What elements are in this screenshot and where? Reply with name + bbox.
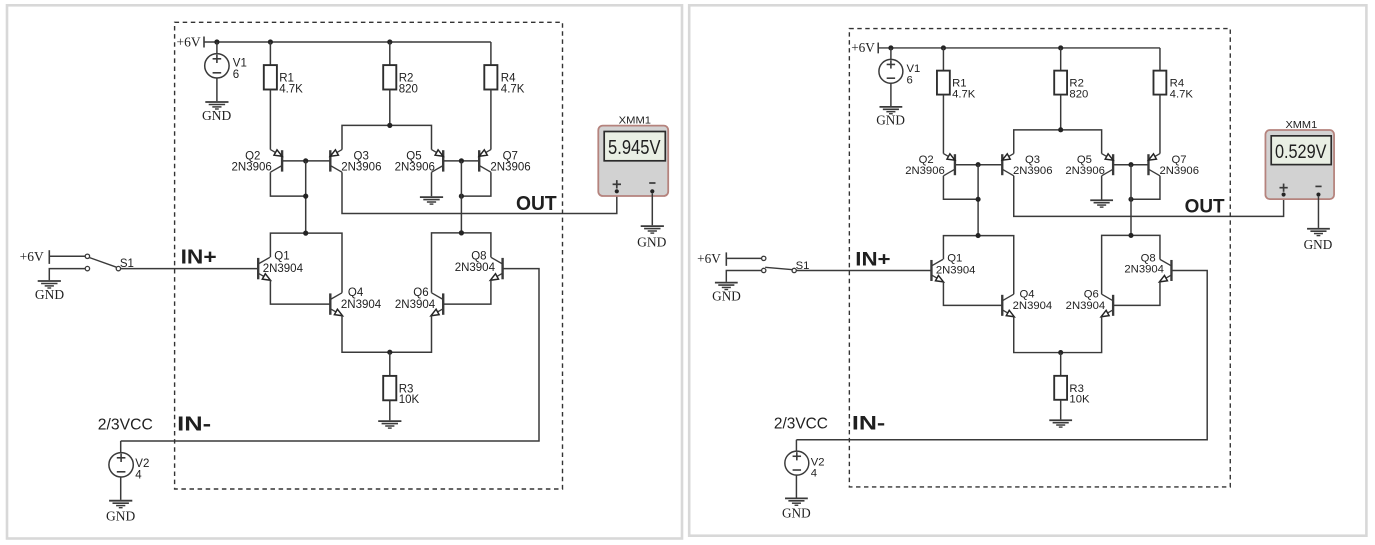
node +6V at switch (697, 251, 726, 266)
label Q5 2N3906 (1065, 154, 1105, 177)
node junction R1/rail (268, 39, 273, 44)
wire R1 to Q2 emitter (942, 95, 944, 154)
svg-text:GND: GND (202, 108, 231, 123)
label Q7 2N3906 (490, 150, 530, 173)
node IN- label (177, 414, 211, 436)
wire Q8 base to IN- (796, 270, 1207, 439)
node junction Q2 collector (303, 194, 308, 199)
label Q2 2N3906 (905, 154, 945, 177)
wire R2 bottom (1060, 95, 1062, 130)
svg-text:2N3906: 2N3906 (395, 162, 435, 174)
svg-text:V2: V2 (135, 458, 149, 470)
svg-text:2N3904: 2N3904 (395, 299, 436, 311)
wire +6V to switch contact (726, 257, 761, 259)
multimeter plus terminal (613, 180, 621, 193)
wire Q5 base to Q7 base (1113, 164, 1148, 166)
wire V1 bottom (890, 83, 892, 106)
label Q6 2N3904 (1066, 289, 1106, 313)
svg-text:Q1: Q1 (274, 251, 289, 263)
svg-text:4.7K: 4.7K (952, 88, 976, 100)
resistor R3 (383, 376, 396, 400)
label V2 value (811, 456, 825, 479)
wire top +6V rail (204, 41, 491, 43)
right schematic (697, 29, 1334, 521)
svg-text:6: 6 (233, 69, 239, 81)
label Q4 2N3904 (1013, 289, 1053, 313)
transistor Q2 (943, 154, 954, 176)
wire R2 top (389, 42, 391, 65)
resistor R1 (264, 65, 277, 89)
label Q8 2N3904 (1124, 253, 1164, 276)
label S1 (120, 258, 134, 270)
resistor R1 (937, 71, 950, 95)
svg-text:2N3906: 2N3906 (490, 162, 530, 174)
right panel frame (689, 5, 1366, 535)
svg-text:GND: GND (35, 287, 64, 302)
node junction Q7 collector (1128, 197, 1133, 202)
transistor Q6 (1101, 294, 1113, 316)
wire Q5 collector to ground (431, 172, 433, 196)
node IN+ label (181, 247, 217, 269)
svg-text:Q5: Q5 (406, 150, 421, 162)
transistor Q8 (490, 257, 502, 280)
svg-text:4.7K: 4.7K (1170, 88, 1194, 100)
transistor Q4 (330, 293, 342, 316)
label V2 value (135, 458, 149, 482)
svg-text:V1: V1 (233, 58, 247, 70)
label R1 4.7K (952, 78, 976, 101)
node junction R2/emitters (1058, 127, 1063, 132)
svg-text:Q3: Q3 (354, 150, 369, 162)
svg-text:2N3904: 2N3904 (1066, 300, 1106, 312)
label Q3 2N3906 (341, 150, 381, 173)
svg-text:IN-: IN- (177, 414, 211, 436)
label 2/3VCC (774, 416, 828, 433)
wire R3 bottom (389, 400, 391, 420)
wire +6V to switch contact (49, 255, 85, 257)
svg-text:4: 4 (135, 470, 142, 482)
resistor R3 (1054, 376, 1067, 400)
wire GND to switch contact (726, 270, 761, 281)
label Q2 2N3906 (232, 150, 272, 173)
multimeter XMM1 body (1265, 130, 1334, 199)
ground GND under V1 (876, 107, 905, 128)
svg-text:2/3VCC: 2/3VCC (98, 417, 153, 434)
svg-text:820: 820 (399, 83, 418, 95)
wire R3 bottom (1060, 400, 1062, 420)
wire Q7 collector (1131, 176, 1160, 199)
source V2 (109, 453, 133, 477)
node junction right rail (1128, 233, 1133, 238)
svg-text:2N3906: 2N3906 (1159, 165, 1199, 177)
wire Q8 emitter to Q6 base (443, 280, 491, 304)
label R2 820 (1069, 78, 1088, 101)
multimeter minus terminal (1315, 186, 1321, 196)
label Q6 2N3904 (395, 287, 436, 311)
wire Q7 collector (461, 172, 491, 196)
wire Q3/Q5 emitters to R2 (342, 125, 432, 149)
svg-text:S1: S1 (120, 258, 134, 270)
node IN- label (852, 413, 885, 435)
wire Q3 collector to OUT (1014, 176, 1284, 217)
node OUT label (1185, 196, 1225, 218)
transistor Q5 (1102, 154, 1113, 176)
transistor Q2 (270, 150, 282, 173)
label R3 10K (399, 383, 420, 406)
svg-text:2N3906: 2N3906 (232, 162, 272, 174)
svg-text:820: 820 (1069, 88, 1088, 100)
label XMM1 (619, 115, 651, 127)
svg-text:2N3904: 2N3904 (936, 265, 976, 277)
wire V1 bottom (216, 78, 218, 101)
source V1 (205, 54, 229, 78)
wire IN- to V2 (795, 440, 797, 452)
svg-text:2/3VCC: 2/3VCC (774, 416, 828, 433)
wire V1 top (216, 42, 218, 54)
wire mid-right vertical (1130, 165, 1132, 236)
svg-text:OUT: OUT (516, 193, 557, 215)
multimeter display 0.529V (1271, 136, 1331, 165)
svg-text:Q6: Q6 (413, 287, 428, 299)
wire Q1 emitter to Q4 base (943, 282, 1002, 306)
source V1 (879, 59, 903, 83)
label R2 820 (399, 73, 418, 96)
resistor R2 (383, 65, 396, 89)
wire R1 to Q2 emitter (269, 90, 271, 150)
wire Q2 collector (943, 176, 978, 199)
ground at switch (35, 281, 64, 302)
node junction tail (387, 350, 392, 355)
label Q4 2N3904 (341, 287, 382, 311)
multimeter XMM1 body (598, 126, 668, 196)
svg-text:S1: S1 (796, 260, 810, 272)
left schematic (20, 22, 669, 523)
wire R2 top (1060, 48, 1062, 71)
switch S1 (762, 256, 797, 272)
node junction base right (1128, 162, 1133, 167)
transistor Q1 (258, 257, 270, 280)
wire R1 top (269, 42, 271, 65)
svg-text:5.945V: 5.945V (608, 137, 661, 159)
svg-text:4: 4 (811, 468, 817, 480)
ground under Q5 (420, 197, 443, 204)
node junction R1/rail (941, 45, 946, 50)
source V2 (785, 451, 809, 475)
node junction V1/rail (214, 39, 219, 44)
node junction right rail (459, 230, 464, 235)
wire Q2 collector (270, 172, 305, 196)
node junction R2/emitters (387, 123, 392, 128)
wire Q6/Q8 collector rail (1102, 235, 1160, 294)
transistor Q7 (1148, 154, 1159, 176)
resistor R2 (1054, 71, 1067, 95)
svg-text:GND: GND (782, 506, 811, 521)
wire R4 to Q7 emitter (490, 90, 492, 150)
label Q1 2N3904 (936, 253, 976, 277)
node junction left rail (303, 231, 308, 236)
svg-text:IN+: IN+ (855, 249, 890, 271)
wire top +6V rail (878, 47, 1160, 49)
svg-text:IN+: IN+ (181, 247, 217, 269)
svg-text:GND: GND (106, 508, 135, 523)
ground at switch (712, 283, 741, 304)
resistor R4 (484, 65, 497, 89)
transistor Q5 (432, 150, 444, 173)
node OUT label (516, 193, 557, 215)
svg-text:Q7: Q7 (503, 150, 518, 162)
multimeter minus terminal (649, 183, 655, 193)
node +6V (top rail label) (851, 40, 878, 55)
resistor R4 (1153, 71, 1166, 95)
svg-text:10K: 10K (399, 394, 420, 406)
wire Q6/Q8 collector rail (432, 233, 491, 293)
node junction Q2 collector (976, 197, 981, 202)
svg-text:IN-: IN- (852, 413, 885, 435)
multimeter display 5.945V (604, 132, 665, 161)
label V1 value (233, 58, 247, 82)
wire IN+ to Q1 base (796, 269, 931, 271)
label Q5 2N3906 (395, 150, 435, 173)
svg-text:+6V: +6V (177, 34, 201, 49)
svg-text:2N3904: 2N3904 (263, 263, 304, 275)
node junction base left (976, 162, 981, 167)
label R3 10K (1069, 383, 1090, 406)
node junction tail (1058, 350, 1063, 355)
label Q1 2N3904 (263, 251, 304, 275)
node +6V at switch (20, 249, 50, 264)
wire R1 top (942, 48, 944, 71)
svg-text:2N3904: 2N3904 (455, 262, 496, 274)
wire IN- to V2 (120, 441, 122, 453)
transistor Q3 (1002, 154, 1013, 176)
transistor Q7 (479, 150, 491, 173)
wire V2 bottom (120, 477, 122, 500)
svg-text:Q2: Q2 (245, 150, 260, 162)
wire meter minus to ground (1317, 197, 1319, 228)
wire R2 bottom (389, 90, 391, 126)
node junction R2/rail (387, 39, 392, 44)
svg-text:GND: GND (1304, 237, 1333, 252)
label R1 4.7K (279, 73, 303, 96)
ground under Q5 (1090, 200, 1113, 207)
transistor Q6 (431, 293, 443, 316)
svg-text:GND: GND (637, 235, 666, 250)
node junction base left (303, 158, 308, 163)
dashed subcircuit box (175, 22, 563, 489)
svg-text:10K: 10K (1069, 394, 1090, 406)
wire Q8 emitter to Q6 base (1113, 282, 1160, 306)
wire mid-left vertical (977, 165, 979, 236)
wire mid-right vertical (460, 161, 462, 233)
wire Q3/Q5 emitters to R2 (1014, 130, 1102, 154)
ground under R3 (378, 421, 401, 428)
wire Q8 base to IN- (121, 269, 539, 441)
wire Q2 base to Q3 base (282, 160, 330, 162)
wire Q1/Q4 collector rail (270, 233, 342, 293)
svg-text:0.529V: 0.529V (1275, 141, 1327, 163)
svg-text:Q8: Q8 (471, 251, 486, 263)
ground under R3 (1049, 420, 1072, 427)
wire R4 top (490, 42, 492, 65)
svg-text:Q4: Q4 (1020, 289, 1035, 301)
wire R3 top (389, 352, 391, 376)
transistor Q4 (1002, 294, 1014, 316)
node +6V (top rail label) (177, 34, 205, 49)
wire R3 top (1060, 353, 1062, 376)
wire mid-left vertical (305, 161, 307, 233)
svg-text:4.7K: 4.7K (501, 83, 525, 95)
label V1 value (907, 63, 921, 86)
svg-text:OUT: OUT (1185, 196, 1225, 218)
svg-text:XMM1: XMM1 (1285, 120, 1317, 131)
wire R4 top (1159, 48, 1161, 71)
node junction left rail (976, 233, 981, 238)
wire Q6 emitter to R3 (390, 315, 432, 352)
label XMM1 (1285, 120, 1317, 131)
node junction V1/rail (888, 45, 893, 50)
wire GND to switch contact (49, 269, 85, 281)
transistor Q3 (330, 150, 342, 173)
svg-text:2N3906: 2N3906 (1013, 165, 1053, 177)
svg-text:+6V: +6V (851, 40, 875, 55)
svg-text:GND: GND (712, 289, 741, 304)
transistor Q1 (931, 259, 943, 281)
multimeter plus terminal (1279, 184, 1287, 197)
left panel frame (7, 5, 682, 538)
svg-text:2N3904: 2N3904 (1013, 300, 1053, 312)
svg-text:2N3904: 2N3904 (341, 299, 382, 311)
wire meter minus to ground (651, 193, 653, 225)
svg-text:V2: V2 (811, 456, 825, 468)
node IN+ label (855, 249, 890, 271)
svg-text:2N3906: 2N3906 (1065, 165, 1105, 177)
wire Q1 emitter to Q4 base (270, 280, 330, 304)
wire Q4 emitter to R3 (342, 315, 390, 352)
ground GND under V1 (202, 102, 231, 123)
ground GND under V2 (782, 498, 811, 520)
label R4 4.7K (1170, 78, 1194, 101)
svg-text:6: 6 (907, 74, 913, 86)
ground GND under meter (637, 226, 666, 250)
svg-text:2N3906: 2N3906 (905, 165, 945, 177)
switch S1 (85, 254, 120, 271)
svg-text:+6V: +6V (20, 249, 44, 264)
svg-text:GND: GND (876, 113, 905, 128)
dashed subcircuit box (849, 29, 1230, 487)
label Q7 2N3906 (1159, 154, 1199, 177)
wire IN+ to Q1 base (121, 268, 259, 270)
svg-text:Q4: Q4 (348, 287, 364, 299)
label R4 4.7K (501, 73, 525, 96)
wire Q5 base to Q7 base (443, 160, 479, 162)
svg-text:2N3904: 2N3904 (1124, 264, 1164, 276)
svg-text:2N3906: 2N3906 (341, 162, 381, 174)
wire R4 to Q7 emitter (1159, 95, 1161, 154)
ground GND under V2 (106, 501, 135, 524)
wire Q4 emitter to R3 (1014, 316, 1061, 352)
wire Q3 collector to OUT (342, 172, 617, 213)
label Q3 2N3906 (1013, 154, 1053, 177)
node junction base right (459, 158, 464, 163)
ground GND under meter (1304, 229, 1333, 252)
svg-text:+6V: +6V (697, 251, 721, 266)
label 2/3VCC (98, 417, 153, 434)
node junction R2/rail (1058, 45, 1063, 50)
wire V1 top (890, 48, 892, 59)
svg-text:Q6: Q6 (1084, 289, 1099, 301)
wire Q1/Q4 collector rail (943, 236, 1013, 295)
svg-text:V1: V1 (907, 63, 921, 75)
label S1 (796, 260, 810, 272)
wire Q6 emitter to R3 (1061, 316, 1102, 352)
node junction Q7 collector (459, 194, 464, 199)
svg-text:XMM1: XMM1 (619, 115, 651, 127)
transistor Q8 (1159, 259, 1171, 281)
label Q8 2N3904 (455, 251, 496, 274)
svg-text:Q1: Q1 (947, 253, 962, 265)
svg-text:4.7K: 4.7K (279, 83, 303, 95)
wire V2 bottom (795, 475, 797, 498)
wire Q5 collector to ground (1101, 176, 1103, 200)
wire Q2 base to Q3 base (955, 164, 1002, 166)
